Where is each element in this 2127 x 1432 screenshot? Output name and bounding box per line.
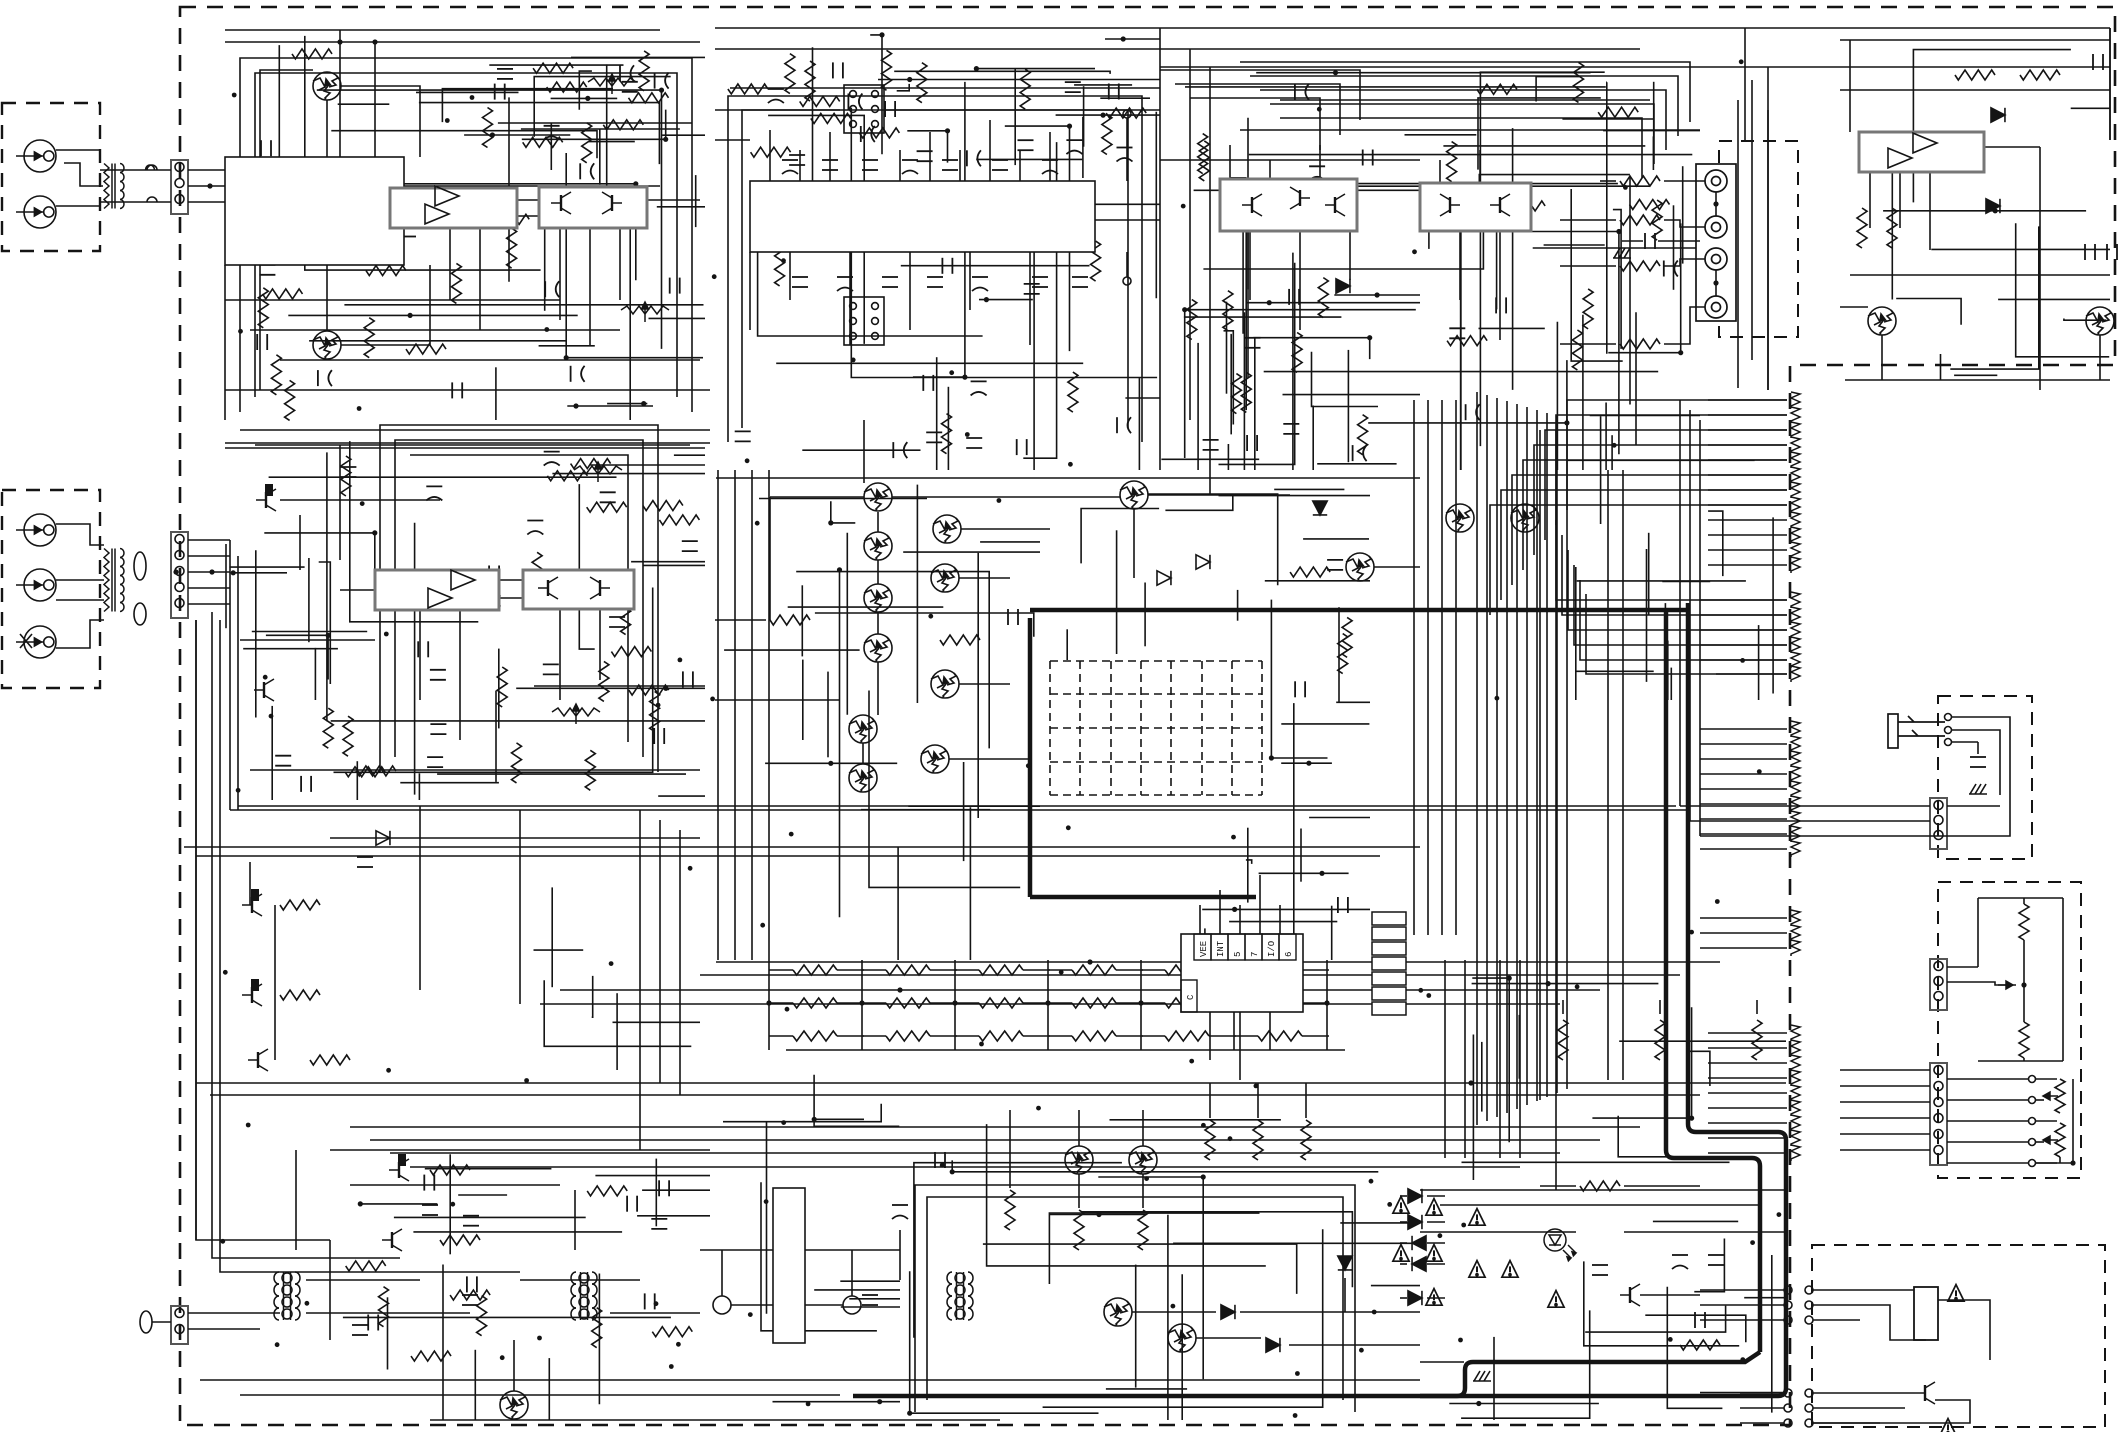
- resistor ladder RL10: [1791, 527, 1800, 543]
- wire: [1751, 80, 1753, 360]
- resistor ladder RL6: [1791, 467, 1800, 483]
- wire: [916, 485, 918, 703]
- capacitor C24: [430, 724, 446, 734]
- wire bus: [751, 470, 753, 960]
- resistor R41: [800, 96, 840, 106]
- wire: [1585, 1306, 1725, 1333]
- jack FM-B: [16, 196, 56, 228]
- wire: [2059, 1157, 2061, 1163]
- resistor array RN10: [1072, 998, 1116, 1008]
- wire bus: [768, 470, 770, 960]
- resistor R6: [639, 51, 649, 91]
- wire: [1771, 1255, 1773, 1413]
- resistor R80: [805, 61, 815, 101]
- wire: [212, 612, 400, 1258]
- resistor R47: [1292, 333, 1302, 373]
- capacitor C52: [833, 62, 843, 78]
- capacitor C69: [463, 1216, 479, 1226]
- wire: [884, 109, 1160, 111]
- capacitor C49: [942, 258, 952, 274]
- resistor ladder RL27: [1791, 841, 1800, 857]
- wire: [1567, 400, 1787, 510]
- wire: [959, 683, 1010, 685]
- resistor R70: [1290, 567, 1330, 577]
- wire: [730, 87, 1160, 89]
- node: [1387, 1202, 1392, 1207]
- wire: [955, 969, 979, 971]
- resistor R402: [1620, 215, 1660, 225]
- node: [236, 788, 241, 793]
- capacitor C26: [357, 857, 373, 867]
- wire: [1081, 509, 1159, 564]
- pot terminal: [2029, 1076, 2036, 1083]
- wire: [1690, 820, 1850, 822]
- wire: [495, 691, 497, 782]
- resistor array RN12: [1258, 998, 1302, 1008]
- capacitor C504: [892, 1205, 908, 1219]
- wire: [567, 405, 653, 407]
- resistor ladder RL30: [1791, 940, 1800, 956]
- wire: [1147, 494, 1277, 585]
- wire: [1715, 192, 1717, 216]
- capacitor C81: [495, 84, 505, 100]
- resistor R66: [587, 1186, 627, 1196]
- wire: [773, 1401, 901, 1403]
- terminal block frame: [1696, 164, 1736, 321]
- wire: [1611, 435, 1613, 470]
- wire bus: [1546, 413, 1548, 1097]
- trimmer VR201: [574, 462, 622, 482]
- resistor array RN4: [1072, 965, 1116, 975]
- wire: [1292, 253, 1294, 470]
- wire: [1708, 1152, 1787, 1154]
- resistor R62: [592, 1308, 602, 1348]
- resistor R81: [1187, 300, 1197, 340]
- capacitor C29: [862, 160, 878, 170]
- wire: [1700, 848, 1787, 850]
- wire: [2062, 898, 2064, 1061]
- capacitor C33: [1042, 160, 1058, 174]
- wire: [238, 805, 1676, 807]
- wire: [1600, 416, 1602, 524]
- wire: [387, 1297, 389, 1369]
- wire: [249, 862, 251, 905]
- node: [1713, 201, 1718, 206]
- capacitor C103: [544, 452, 560, 466]
- wire: [521, 128, 680, 130]
- node: [897, 987, 902, 992]
- wire: [2036, 1099, 2044, 1101]
- resistor ladder RL4: [1791, 437, 1800, 453]
- wire: [963, 762, 965, 861]
- wire: [220, 620, 520, 1272]
- wire: [1344, 1278, 1346, 1312]
- wire: [1490, 505, 1787, 615]
- wire: [658, 795, 705, 797]
- wire: [862, 969, 886, 971]
- resistor R83: [1223, 291, 1233, 331]
- wire: [1813, 1407, 1880, 1409]
- capacitor C88: [885, 101, 895, 117]
- wire: [1700, 803, 1787, 805]
- wire: [416, 91, 519, 93]
- wire: [1667, 1287, 1722, 1409]
- capacitor C21: [489, 566, 499, 582]
- node: [654, 1301, 659, 1306]
- wire: [954, 960, 956, 1050]
- op-amp U401a: [1913, 133, 1937, 153]
- resistor R53: [1505, 201, 1545, 211]
- capacitor C23: [527, 521, 543, 535]
- wire: [260, 70, 313, 157]
- wire: [959, 150, 961, 181]
- ground: [1613, 248, 1631, 258]
- resistor ladder RL5: [1791, 452, 1800, 468]
- svg-text:C: C: [1186, 994, 1196, 1000]
- jack AM-A: [16, 514, 56, 546]
- wire: [1499, 231, 1501, 340]
- wire: [1347, 350, 1349, 462]
- wire: [674, 454, 705, 456]
- wire: [589, 228, 591, 345]
- wire: [1033, 222, 1035, 471]
- wire: [1480, 72, 1604, 446]
- wire bus: [1427, 400, 1429, 935]
- dashed box: speaker terminals: [1719, 141, 1798, 337]
- wire: [1544, 244, 1605, 246]
- jack contact: [1945, 739, 1952, 746]
- wire: [1334, 294, 1420, 296]
- wire: [1700, 835, 1947, 837]
- zener D304: [1313, 501, 1327, 515]
- wire: [1140, 960, 1142, 1050]
- node: [544, 327, 549, 332]
- diode bridge D504: [1408, 1189, 1422, 1203]
- capacitor C94: [1245, 338, 1261, 348]
- wire: [796, 572, 989, 749]
- node: [1678, 350, 1683, 355]
- wire: [2036, 1162, 2073, 1164]
- wire bus: [230, 809, 1688, 811]
- node: [785, 1007, 790, 1012]
- resistor R7: [263, 289, 303, 299]
- node: [952, 1000, 957, 1005]
- capacitor C310: [1008, 609, 1018, 625]
- wire: [1105, 38, 1160, 40]
- wire: [1700, 599, 1787, 601]
- node: [1171, 1304, 1176, 1309]
- transistor Q504: [1065, 1146, 1093, 1174]
- wire bus vcc: [715, 27, 2110, 29]
- wire: [700, 1249, 900, 1251]
- node: [1026, 763, 1031, 768]
- wire: [899, 1230, 901, 1280]
- node: [997, 498, 1002, 503]
- wire: [2109, 40, 2111, 140]
- wire: [1977, 742, 1979, 754]
- wire: [1269, 160, 1271, 179]
- capacitor C10: [318, 370, 332, 386]
- node: [1494, 188, 1499, 193]
- wire bus: [1240, 62, 1690, 122]
- resistor ladder RL34: [1791, 1070, 1800, 1086]
- transistor Q305: [1490, 194, 1510, 216]
- resistor R84: [1318, 278, 1328, 318]
- node: [748, 1312, 753, 1317]
- wire bus: [1413, 400, 1415, 935]
- svg-text:5: 5: [1233, 952, 1243, 957]
- wire: [550, 123, 552, 170]
- wire: [1947, 800, 2010, 836]
- wire: [339, 30, 341, 157]
- wire: [2036, 1078, 2057, 1080]
- resistor array RN16: [1072, 1031, 1116, 1041]
- wire: [765, 762, 897, 764]
- resistor R37: [942, 414, 952, 454]
- wire: [1899, 172, 1901, 228]
- wire: [1254, 338, 1256, 470]
- wire: [1646, 549, 1648, 682]
- node: [1231, 1000, 1236, 1005]
- resistor R77: [917, 63, 927, 103]
- node: [1546, 981, 1551, 986]
- pin header CN501: [1372, 912, 1406, 1015]
- wire: [789, 252, 791, 300]
- resistor ladder RL15: [1791, 622, 1800, 638]
- resistor R68: [1338, 634, 1348, 674]
- capacitor C57: [1294, 179, 1308, 195]
- resistor R29: [323, 708, 333, 748]
- capacitor C92: [1109, 84, 1119, 100]
- wire: [495, 367, 497, 420]
- wire: [1159, 28, 1161, 470]
- wire: [1243, 184, 1618, 334]
- wire: [516, 687, 705, 689]
- node: [1121, 36, 1126, 41]
- resistor ladder RL28: [1791, 910, 1800, 926]
- resistor R10: [285, 380, 295, 420]
- wire: [1234, 1035, 1258, 1037]
- wire: [1978, 897, 2063, 899]
- resistor array RN18: [1258, 1031, 1302, 1041]
- resistor R74: [547, 82, 587, 92]
- capacitor C502: [352, 1325, 368, 1335]
- wire: [1126, 118, 1128, 181]
- wire: [1249, 231, 1251, 300]
- wire: [308, 558, 310, 642]
- wire: [599, 609, 601, 680]
- wire: [1947, 1141, 2028, 1143]
- resistor R506: [1205, 1120, 1215, 1160]
- wire: [1850, 820, 1930, 822]
- wire: [1247, 187, 1249, 290]
- wire: [1240, 1311, 1420, 1313]
- resistor R71: [603, 120, 643, 130]
- wire bus: [1536, 410, 1538, 1101]
- wire: [1234, 1002, 1258, 1004]
- wire: [188, 201, 225, 203]
- wire: [540, 1003, 1560, 1005]
- wire: [1420, 1231, 1576, 1233]
- wire: [1652, 136, 1654, 170]
- resistor array RN14: [886, 1031, 930, 1041]
- wire: [1185, 310, 1416, 458]
- resistor array RN7: [793, 998, 837, 1008]
- wire bus: [350, 1126, 1640, 1128]
- capacitor C601: [1970, 757, 1986, 767]
- resistor R403: [1620, 261, 1660, 271]
- wire: [1078, 1174, 1080, 1208]
- wire: [343, 1316, 671, 1318]
- transistor Q9: [921, 745, 949, 773]
- transistor Q10: [849, 764, 877, 792]
- wire bus: [1526, 407, 1528, 1105]
- svg-text:I/O: I/O: [1267, 941, 1277, 957]
- wire: [1708, 474, 1787, 476]
- wire: [1687, 1051, 1710, 1086]
- wire: [913, 82, 965, 377]
- wire: [240, 1394, 840, 1396]
- wire: [1300, 829, 1302, 882]
- resistor R75: [582, 123, 592, 163]
- wire: [1700, 947, 1787, 949]
- wire: [1141, 969, 1165, 971]
- wire: [152, 1321, 171, 1323]
- bold bus line horizontal 2: [1030, 895, 1256, 900]
- wire: [1658, 240, 1700, 242]
- wire: [1227, 444, 1229, 470]
- wire: [1427, 1195, 1445, 1197]
- resistor R602: [2019, 1022, 2029, 1058]
- wire: [1574, 565, 1787, 645]
- wire: [1420, 1361, 1464, 1363]
- transistor Q102: [313, 331, 341, 359]
- capacitor C48: [926, 432, 942, 442]
- wire: [616, 993, 618, 1070]
- capacitor C510: [1695, 1312, 1705, 1328]
- node: [1458, 1338, 1463, 1343]
- wire: [449, 1154, 451, 1254]
- wire: [1700, 932, 1787, 934]
- wire: [877, 560, 879, 584]
- wire: [1478, 98, 1601, 170]
- node: [984, 297, 989, 302]
- wire: [831, 501, 856, 523]
- capacitor C507: [1592, 1265, 1608, 1275]
- transformer T302: [571, 1272, 597, 1320]
- wire: [279, 45, 516, 194]
- wire: [1689, 410, 1691, 821]
- wire: [1940, 354, 1942, 380]
- wire: [1622, 240, 1643, 242]
- wire: [936, 357, 938, 470]
- wire: [1116, 530, 1118, 654]
- capacitor C41: [1024, 284, 1040, 294]
- wire: [1737, 100, 1739, 388]
- wire: [1239, 1012, 1241, 1080]
- IC U302 (6p): [844, 85, 884, 133]
- node: [269, 714, 274, 719]
- wire: [1460, 208, 1462, 470]
- node: [828, 520, 833, 525]
- diode D301: [1336, 279, 1350, 293]
- wire: [1700, 614, 1787, 616]
- block U401 (gray): [1859, 132, 1984, 172]
- wire: [513, 1340, 515, 1391]
- IC U501 pin boxes: [1181, 934, 1296, 1012]
- node: [678, 658, 683, 663]
- wire: [983, 1244, 1297, 1294]
- node: [1306, 761, 1311, 766]
- wire: [1700, 773, 1787, 775]
- wire: [2071, 107, 2110, 109]
- wire: [862, 1035, 886, 1037]
- wire: [464, 134, 570, 136]
- capacitor C42: [967, 150, 981, 166]
- wire: [410, 1166, 1520, 1168]
- node: [326, 633, 331, 638]
- wire: [1813, 1289, 1860, 1291]
- wire: [1023, 142, 1056, 458]
- wire: [1840, 89, 2110, 91]
- pad: [1784, 1389, 1792, 1397]
- wire: [2016, 223, 2110, 356]
- capacitor C2: [545, 281, 559, 297]
- wire: [1083, 86, 1085, 147]
- wire: [649, 317, 706, 319]
- wire: [1613, 210, 1621, 349]
- resistor R51: [1447, 142, 1457, 182]
- capacitor C80: [544, 126, 560, 140]
- inductor L301: [140, 1311, 152, 1333]
- wire: [647, 199, 700, 201]
- IC U301 tuner/decoder: [750, 181, 1095, 252]
- node: [1232, 907, 1237, 912]
- wire bus: [240, 429, 710, 431]
- wire: [1659, 1000, 1661, 1014]
- capacitor C28: [822, 160, 838, 170]
- wire: [1427, 1242, 1445, 1244]
- wire: [225, 389, 710, 391]
- wire: [579, 71, 592, 110]
- wire: [425, 1168, 552, 1170]
- wire: [1400, 1242, 1407, 1244]
- wire: [1229, 145, 1231, 179]
- resistor R32: [280, 990, 320, 1000]
- wire: [1592, 1007, 1691, 1118]
- wire: [1629, 176, 1631, 405]
- dashed box: headphone jack: [1938, 696, 2032, 859]
- node: [305, 1301, 310, 1306]
- transistor Q503: [382, 1229, 402, 1251]
- capacitor C401: [1645, 233, 1655, 249]
- wire: [458, 1194, 507, 1196]
- wire: [255, 550, 257, 717]
- resistor R49: [1199, 141, 1209, 181]
- node: [828, 761, 833, 766]
- resistor ladder RL18: [1791, 666, 1800, 682]
- wire: [976, 158, 1082, 160]
- wire: [629, 220, 631, 421]
- node: [962, 375, 967, 380]
- wire: [598, 1274, 600, 1405]
- wire: [266, 635, 328, 679]
- node: [1668, 1337, 1673, 1342]
- resistor ladder RL20: [1791, 736, 1800, 752]
- resistor R31: [280, 900, 320, 910]
- wire: [655, 1159, 657, 1227]
- node: [1059, 970, 1064, 975]
